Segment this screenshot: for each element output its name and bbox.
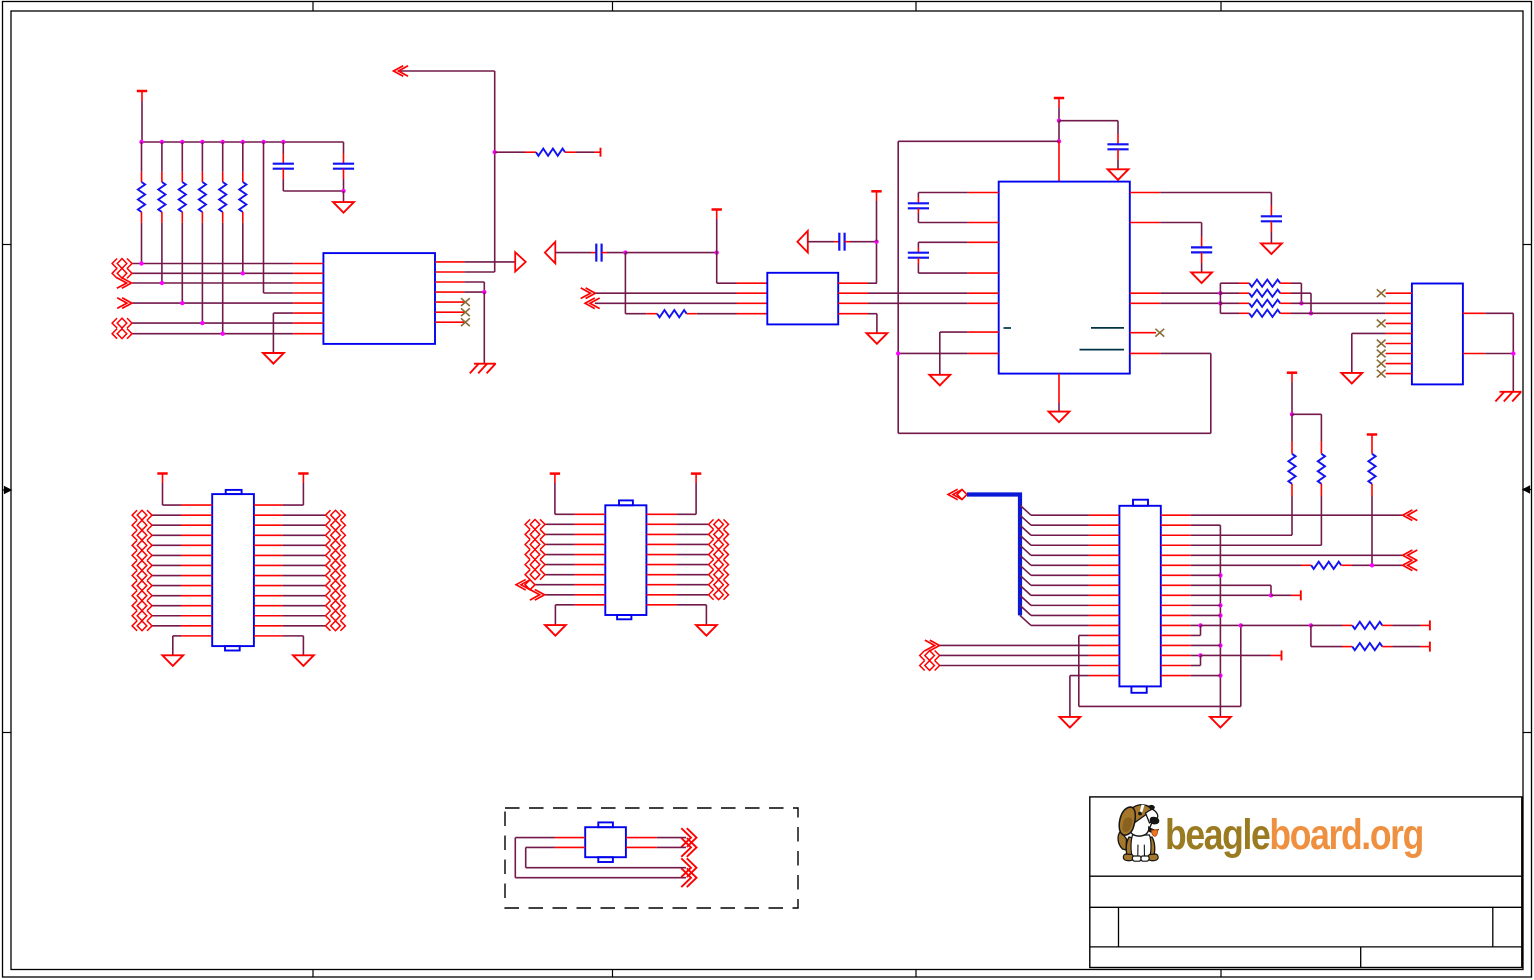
pin J1 right [1161, 675, 1191, 677]
wire [242, 142, 244, 172]
terminal T3 [1429, 620, 1431, 630]
wire [1191, 665, 1201, 667]
pin [565, 151, 576, 153]
wire [1291, 302, 1386, 304]
pin J3 left [575, 513, 606, 515]
wire [1031, 514, 1089, 516]
wire [283, 554, 326, 556]
IC U3 [999, 182, 1130, 374]
pin U4 left [1386, 363, 1412, 365]
no-connect X [1377, 360, 1386, 368]
title block divider [1360, 947, 1362, 968]
wire loop right [1210, 353, 1212, 433]
wire [161, 142, 163, 172]
pin U3 left [968, 192, 999, 194]
wire [1191, 624, 1201, 626]
wire [595, 302, 737, 304]
off-page chevron J3L8 [535, 589, 545, 600]
pin [1342, 646, 1352, 648]
capacitor C5 [1107, 143, 1128, 145]
wire [222, 142, 224, 172]
pin J2 left [181, 514, 212, 516]
wire [695, 474, 697, 483]
wire [917, 242, 919, 247]
pin U2 right [838, 302, 868, 304]
wire [526, 867, 686, 869]
no-connect X [1377, 289, 1386, 297]
pin J1 right [1161, 634, 1191, 636]
no-connect X [461, 308, 470, 316]
wire [495, 151, 525, 153]
pin J1 right [1161, 544, 1191, 546]
wire [1311, 624, 1342, 626]
pin [1271, 654, 1282, 656]
pin [222, 172, 224, 182]
capacitor C1 [273, 163, 294, 165]
wire loop bottom [898, 432, 1211, 434]
pin J1 left [1089, 614, 1120, 616]
ground [162, 655, 183, 666]
wire [1191, 675, 1221, 677]
pin [917, 248, 919, 253]
pin U1 right [435, 291, 464, 293]
wire [464, 281, 484, 283]
logo beagle dog [1118, 805, 1159, 862]
pin J1 right [1161, 564, 1191, 566]
wire [1191, 584, 1271, 586]
pin U1 left [293, 282, 323, 284]
wire [222, 223, 224, 334]
wire [283, 575, 326, 577]
off-page chevron F1 [687, 828, 697, 847]
capacitor C6 [908, 202, 929, 204]
wire [1079, 705, 1241, 707]
pin [343, 154, 345, 164]
pin [1420, 624, 1430, 626]
wire [201, 142, 203, 172]
wire [132, 263, 293, 265]
wire [676, 543, 708, 545]
wire [152, 514, 181, 516]
bus ripper [1020, 585, 1031, 595]
port in TRI3 [797, 231, 807, 253]
junction rail [1218, 613, 1222, 617]
junction bus 8 [281, 140, 285, 144]
pin J2 right [254, 615, 283, 617]
wire [676, 574, 708, 576]
wire [717, 282, 737, 284]
wire [607, 252, 625, 254]
pin J1 left [1089, 654, 1120, 656]
off-page connector J2L [132, 550, 137, 560]
pin [591, 252, 596, 254]
pin J3 right [646, 523, 676, 525]
wire [876, 242, 878, 284]
wire [161, 223, 163, 283]
wire [1191, 654, 1201, 656]
pin J3 right [646, 594, 676, 596]
border arrow right [1523, 486, 1532, 493]
wire [1058, 403, 1060, 412]
no-connect X [461, 318, 470, 326]
wire [1160, 192, 1271, 194]
wire [1117, 160, 1119, 170]
pin J2 left [181, 575, 212, 577]
junction D2 [1057, 139, 1061, 143]
wire [1311, 646, 1342, 648]
pin J3 right [646, 574, 676, 576]
wire [1058, 98, 1060, 108]
title block divider [1118, 907, 1120, 947]
wire [1291, 312, 1386, 314]
off-page chevron F2 [687, 838, 697, 857]
wire [162, 474, 164, 484]
pin [646, 313, 657, 315]
pin J2 right [254, 625, 283, 627]
junction bus 5 [221, 140, 225, 144]
ground [867, 333, 888, 344]
pin U3 left [968, 222, 999, 224]
wire [152, 554, 181, 556]
pin J2 left [181, 635, 212, 637]
wire [283, 564, 326, 566]
ground [929, 375, 950, 386]
pin [1280, 292, 1291, 294]
wire [1392, 624, 1420, 626]
off-page connector J2L [132, 621, 137, 631]
junction bus 4 [200, 140, 204, 144]
power VCC P7 [157, 472, 167, 475]
wire [181, 223, 183, 303]
pin [201, 172, 203, 182]
terminal T1 [600, 148, 602, 157]
pin J2 right [254, 514, 283, 516]
wire [283, 625, 326, 627]
wire [283, 544, 326, 546]
wire [1191, 644, 1221, 646]
junction [221, 332, 225, 336]
wire [554, 483, 556, 514]
off-page connector J3R [724, 550, 729, 560]
wire [525, 847, 527, 867]
wire [808, 241, 834, 243]
off-page connector J2R [340, 550, 345, 560]
pin J1 right [1161, 534, 1191, 536]
off-page connector A2 [112, 268, 117, 278]
wire [898, 140, 1059, 142]
wire [545, 543, 575, 545]
pin J2 left [181, 625, 212, 627]
off-page connector J3R [724, 560, 729, 570]
pin J3 left [575, 584, 606, 586]
pin [917, 208, 919, 213]
pin U3 left [968, 272, 999, 274]
wire [283, 595, 326, 597]
wire [132, 272, 293, 274]
wire [264, 292, 294, 294]
pin [1239, 282, 1249, 284]
wire [132, 322, 293, 324]
pin [1291, 594, 1301, 596]
wire [1191, 524, 1221, 526]
junction [482, 290, 486, 294]
wire rail [1219, 525, 1221, 717]
junction rail [1218, 603, 1222, 607]
pin U4 left [1386, 332, 1412, 334]
wire [555, 604, 574, 606]
wire [515, 837, 555, 839]
resistor R1 [138, 182, 145, 212]
off-page connector J2R [340, 601, 345, 611]
wire [1031, 624, 1089, 626]
bus ripper [1020, 605, 1031, 615]
pin J3 left [575, 604, 606, 606]
junction A [623, 250, 627, 254]
pin [602, 252, 607, 254]
wire [1200, 625, 1202, 635]
border tick left [3, 732, 12, 734]
wire [141, 142, 143, 172]
wire [1160, 292, 1220, 294]
wire [1191, 554, 1403, 556]
wire [1300, 283, 1302, 303]
connector J1 [1119, 506, 1160, 687]
ground [545, 625, 566, 636]
off-page connector J2R [340, 540, 345, 550]
wire [876, 314, 878, 334]
pin J1 left [1089, 675, 1120, 677]
off-page connector J2L [132, 520, 137, 530]
off-page connector J3R [724, 529, 729, 539]
pin [1117, 134, 1119, 144]
off-page chevron E1 [1403, 510, 1413, 521]
no-connect X [461, 298, 470, 306]
wire [1292, 413, 1321, 415]
wire [152, 534, 181, 536]
pin J1 right [1161, 554, 1191, 556]
wire [1191, 564, 1301, 566]
pin J2 right [254, 554, 283, 556]
wire [152, 615, 181, 617]
wire [483, 282, 485, 292]
wire [676, 533, 708, 535]
wire [676, 564, 708, 566]
wire [173, 635, 181, 637]
pin [242, 212, 244, 223]
bus ripper [1020, 525, 1031, 535]
wire [1191, 594, 1271, 596]
off-page connector J3L [525, 550, 530, 560]
junction bus 7 [261, 140, 265, 144]
pin J1 right [1161, 584, 1191, 586]
pin U3 left [968, 352, 999, 354]
bus ripper [1020, 555, 1031, 565]
power VCC P1 [137, 90, 147, 93]
wire [1031, 534, 1089, 536]
pin J3 left [575, 574, 606, 576]
pin J1 left [1089, 624, 1120, 626]
wire [1220, 312, 1239, 314]
wire [697, 313, 737, 315]
pin [1382, 646, 1392, 648]
wire [1059, 120, 1118, 122]
pin J3 left [575, 523, 606, 525]
pin [1280, 302, 1291, 304]
wire [898, 352, 968, 354]
junction [139, 261, 143, 265]
off-page connector J2R [340, 560, 345, 570]
wire [676, 523, 708, 525]
junction rail [1218, 643, 1222, 647]
pin U1 left [293, 302, 323, 304]
wire [515, 877, 686, 879]
wire [152, 585, 181, 587]
bus ripper [1020, 595, 1031, 605]
off-page connector J2R [340, 520, 345, 530]
pin [737, 313, 768, 315]
pin J2 right [254, 605, 283, 607]
bus ripper [1020, 515, 1031, 525]
pin J2 left [181, 585, 212, 587]
pin U3 right [1130, 222, 1161, 224]
ground [1210, 717, 1231, 728]
junction rail [1218, 573, 1222, 577]
wire [1352, 332, 1386, 334]
pin J3 left [575, 564, 606, 566]
wire [181, 142, 183, 172]
wire [705, 605, 707, 625]
pin J3 left [575, 594, 606, 596]
pin [1239, 302, 1249, 304]
pin [917, 258, 919, 265]
pin J1 right [1161, 514, 1191, 516]
off-page connector J2L [132, 530, 137, 540]
wire [545, 594, 575, 596]
wire [283, 190, 343, 192]
bus ripper [1020, 615, 1031, 625]
off-page chevron E2 [1403, 550, 1413, 561]
off-page chevron E3 [1403, 560, 1413, 571]
junction bus 1 [139, 140, 143, 144]
pin [161, 212, 163, 223]
off-page chevron B2 [585, 298, 595, 309]
wire [1160, 302, 1220, 304]
resistor R9 [1288, 454, 1295, 484]
pin U2 right [838, 292, 868, 294]
wire [676, 594, 708, 596]
wire [554, 605, 556, 625]
wire [1371, 496, 1373, 565]
wire [1031, 584, 1089, 586]
pin U1 left [293, 333, 323, 335]
pin J2 right [254, 504, 283, 506]
power VCC P8 [298, 472, 308, 475]
pin U4 right [1463, 312, 1485, 314]
pin J2 right [254, 595, 283, 597]
power VCC P9 [550, 472, 560, 475]
wire [1351, 333, 1353, 373]
off-page connector J3L [525, 539, 530, 549]
junction N1 [1218, 291, 1222, 295]
off-page chevron TOP [394, 66, 404, 77]
wire [526, 846, 555, 848]
IC U1 [323, 253, 435, 344]
resistor R13 [1352, 622, 1382, 629]
wire [1291, 282, 1301, 284]
pin J1 right [1161, 604, 1191, 606]
pin U4 right [1463, 353, 1485, 355]
pin J2 right [254, 635, 283, 637]
wire [201, 223, 203, 323]
pin U3 right [1130, 352, 1161, 354]
off-page connector J2R [340, 611, 345, 621]
wire [676, 554, 708, 556]
pin J1 left [1089, 544, 1120, 546]
wire [868, 282, 877, 284]
bus ripper [1020, 505, 1031, 515]
pin [1280, 282, 1291, 284]
wire [282, 142, 284, 154]
wire [545, 574, 575, 576]
junction D3 [896, 351, 900, 355]
junction N2 [1218, 301, 1222, 305]
pin J3 right [646, 554, 676, 556]
wire [624, 253, 626, 314]
wire [676, 604, 706, 606]
wire [716, 210, 718, 220]
pin J2 right [254, 564, 283, 566]
wire [1291, 373, 1293, 382]
wire [1270, 232, 1272, 243]
pin [845, 241, 850, 243]
wire [464, 271, 494, 273]
U3 label mark 2 [1091, 327, 1124, 329]
wire [273, 312, 293, 314]
wire [494, 71, 496, 272]
wire [152, 625, 181, 627]
wire [1191, 614, 1221, 616]
wire [1485, 353, 1513, 355]
pin J2 right [254, 544, 283, 546]
pin U2 right [838, 313, 868, 315]
power VCC P3 [871, 190, 881, 193]
wire [283, 585, 326, 587]
pin J2 left [181, 564, 212, 566]
wire [343, 191, 345, 202]
wire [152, 524, 181, 526]
no-connect X [1377, 320, 1386, 328]
wire [676, 584, 708, 586]
wire [141, 223, 143, 264]
pin [1382, 624, 1392, 626]
off-page connector J3L7 [525, 580, 535, 590]
off-page connector J2L [132, 560, 137, 570]
wire [1320, 414, 1322, 441]
border tick top [612, 2, 614, 12]
power VCC P4 [1054, 97, 1064, 100]
border tick bottom [312, 970, 314, 978]
junction bus 3 [180, 140, 184, 144]
wire [141, 91, 143, 101]
wire [1320, 496, 1322, 545]
wire [1031, 604, 1089, 606]
pin [343, 169, 345, 179]
off-page chevron A3 [122, 278, 132, 289]
pin [181, 172, 183, 182]
ground [696, 625, 717, 636]
wire [282, 179, 284, 191]
pin [737, 282, 768, 284]
